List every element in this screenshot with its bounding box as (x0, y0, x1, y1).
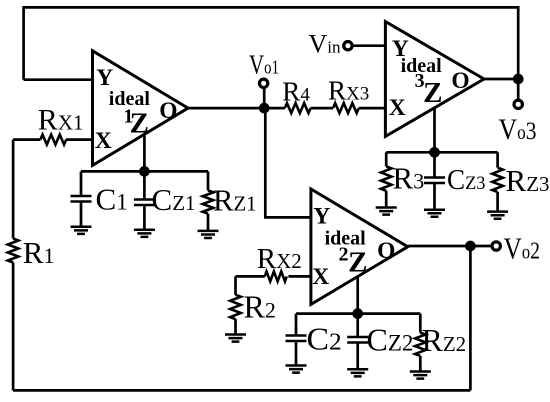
svg-text:O: O (451, 68, 469, 94)
pin label O (triangle 1) (159, 98, 177, 124)
resistor R1 (8, 239, 19, 263)
pin label Y (triangle 2) (313, 204, 330, 230)
pin label O (triangle 3) (451, 68, 469, 94)
label RZ1 (213, 183, 257, 218)
wire left vertical (X1 to bottom rail) (12, 140, 15, 391)
wire Vin to Y3 input (348, 44, 386, 47)
label RX3 (328, 76, 369, 106)
resistor RZ1 (203, 171, 214, 231)
label CZ3 (447, 165, 486, 196)
svg-text:X: X (312, 264, 329, 290)
label Vin (309, 30, 342, 59)
capacitor C2 (286, 314, 307, 366)
svg-text:Vo1: Vo1 (249, 50, 279, 80)
pin label 2Z (triangle 2) (339, 244, 368, 279)
ground (R3) (376, 208, 397, 215)
label C2 (307, 321, 342, 357)
svg-text:C1: C1 (96, 182, 128, 217)
resistor RX3 (333, 103, 359, 113)
terminal Vo3 (514, 100, 522, 108)
capacitor CZ2 (347, 314, 368, 370)
wire bottom rail (13, 389, 470, 392)
ground (RZ3) (487, 212, 508, 219)
wire X1 input with RX1 (13, 138, 92, 141)
svg-text:RZ3: RZ3 (506, 163, 550, 198)
ground (C1) (71, 227, 92, 234)
resistor R2 (230, 276, 241, 334)
label ideal (triangle 3) (401, 55, 443, 77)
svg-text:RX2: RX2 (257, 243, 302, 275)
resistor RX2 (265, 271, 287, 281)
label ideal (triangle 1) (109, 88, 151, 110)
label R4 (282, 77, 310, 107)
svg-text:R4: R4 (282, 77, 310, 107)
svg-text:CZ1: CZ1 (152, 182, 196, 217)
wire Vo1 node to Y2 input (265, 108, 311, 217)
ground (RZ2) (410, 372, 431, 379)
wire top feedback (Vo3 node to Y1) (24, 7, 519, 79)
ground (C2) (286, 366, 307, 373)
svg-text:X: X (389, 95, 406, 121)
wire Z3 rail (386, 151, 497, 154)
svg-text:RZ1: RZ1 (213, 183, 257, 218)
wire Z1 terminal (143, 135, 146, 172)
pin label Y (triangle 3) (392, 36, 409, 62)
resistor R4 (285, 103, 311, 113)
label CZ2 (367, 322, 414, 358)
svg-text:Vin: Vin (309, 30, 342, 59)
wire Z2 rail (296, 312, 420, 315)
svg-text:C2: C2 (307, 321, 342, 357)
wire Vo3 stub (517, 79, 520, 99)
ground (CZ1) (134, 230, 155, 237)
label C1 (96, 182, 128, 217)
label Vo1 (249, 50, 279, 80)
op-amp triangle U3 (ideal 3Z) (385, 22, 484, 137)
resistor RZ3 (492, 152, 503, 211)
ground (R2) (225, 335, 246, 342)
node Vo2 junction (465, 241, 476, 252)
svg-text:Z: Z (348, 246, 367, 278)
label Vo3 (499, 113, 537, 146)
label R2 (244, 289, 276, 325)
capacitor C1 (71, 171, 92, 226)
pin label 1Z (triangle 1) (123, 106, 149, 140)
wire Z2 terminal (356, 277, 359, 314)
wire Z3 terminal (433, 108, 436, 152)
label Vo2 (504, 231, 541, 266)
svg-text:Z: Z (130, 108, 149, 140)
label R1 (23, 235, 55, 270)
svg-text:Z: Z (423, 77, 442, 109)
svg-text:2: 2 (339, 244, 349, 266)
wire O2 output (408, 245, 496, 248)
svg-text:Vo3: Vo3 (499, 113, 537, 146)
svg-text:RX1: RX1 (38, 104, 84, 137)
label RZ3 (506, 163, 550, 198)
label RZ2 (422, 322, 467, 358)
svg-text:R2: R2 (244, 289, 276, 325)
wire Y1 input (24, 78, 93, 81)
wire O1 output to Vo1 node (188, 107, 285, 110)
wire X2 input with RX2 (236, 275, 311, 278)
terminal Vin (344, 42, 352, 50)
terminal Vo1 (259, 79, 267, 87)
label CZ1 (152, 182, 196, 217)
pin label 3Z (triangle 3) (415, 70, 443, 109)
svg-text:Vo2: Vo2 (504, 231, 541, 266)
label RX1 (38, 104, 84, 137)
svg-text:R3: R3 (393, 161, 425, 196)
node Z2 junction (352, 308, 363, 319)
wire RX3 to X3 input (359, 107, 386, 110)
pin label X (triangle 1) (95, 128, 112, 154)
wire Z1 rail (81, 170, 208, 173)
node Z1 junction (139, 166, 150, 177)
wire between R4 and RX3 (311, 107, 333, 110)
pin label X (triangle 2) (312, 264, 329, 290)
label RX2 (257, 243, 302, 275)
node Vo1 junction (259, 103, 270, 114)
svg-text:RZ2: RZ2 (422, 322, 467, 358)
pin label X (triangle 3) (389, 95, 406, 121)
svg-text:CZ2: CZ2 (367, 322, 414, 358)
svg-text:RX3: RX3 (328, 76, 369, 106)
pin label Y (triangle 1) (96, 65, 113, 91)
svg-text:R1: R1 (23, 235, 55, 270)
ground (CZ3) (424, 210, 445, 217)
label ideal (triangle 2) (325, 227, 367, 249)
op-amp triangle U2 (ideal 2Z) (311, 189, 408, 304)
capacitor CZ3 (424, 152, 445, 209)
op-amp triangle U1 (ideal 1Z) (93, 51, 189, 166)
svg-text:CZ3: CZ3 (447, 165, 486, 196)
svg-text:O: O (377, 238, 395, 264)
resistor R3 (381, 152, 392, 207)
capacitor CZ1 (134, 171, 155, 229)
wire Vo1 stub (263, 88, 266, 108)
pin label O (triangle 2) (377, 238, 395, 264)
node Vo3 junction (513, 74, 524, 85)
wire O3 output (484, 78, 518, 81)
svg-text:X: X (95, 128, 112, 154)
terminal Vo2 (492, 242, 500, 250)
svg-text:O: O (159, 98, 177, 124)
svg-text:Y: Y (313, 204, 330, 230)
node Z3 junction (429, 147, 440, 158)
wire right vertical (bottom rail to Vo2 node) (469, 246, 472, 390)
label R3 (393, 161, 425, 196)
resistor RX1 (40, 135, 66, 145)
ground (RZ1) (198, 231, 219, 238)
ground (CZ2) (347, 369, 368, 376)
resistor RZ2 (415, 314, 426, 372)
